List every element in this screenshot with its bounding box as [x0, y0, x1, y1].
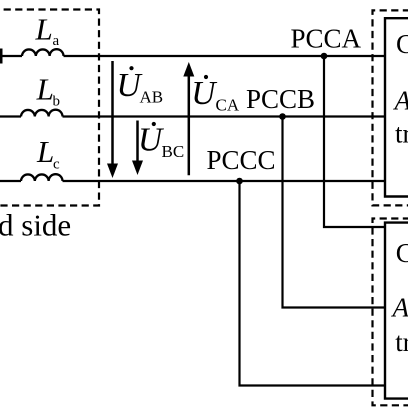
label UCA	[191, 75, 240, 115]
svg-text:c: c	[53, 156, 60, 172]
label grid side	[0, 208, 71, 243]
label PCCA	[291, 24, 362, 54]
label Lc	[36, 134, 60, 173]
converter 2 text line A	[391, 292, 408, 322]
svg-text:L: L	[36, 134, 54, 169]
node PCCB	[279, 113, 286, 120]
node PCCA	[321, 53, 328, 60]
svg-text:A: A	[391, 292, 408, 322]
converter 1 box	[385, 18, 408, 196]
svg-text:C: C	[396, 238, 408, 268]
wire phase A	[0, 55, 385, 57]
converter 1 text line C	[396, 29, 408, 59]
wire PCCA to converter 2	[324, 56, 385, 227]
label PCCC	[207, 145, 276, 175]
grid-side dashed enclosure	[0, 10, 99, 206]
svg-text:A: A	[393, 86, 408, 116]
wire phase C	[0, 180, 385, 182]
svg-text:PCCC: PCCC	[207, 145, 276, 175]
svg-text:a: a	[53, 33, 60, 49]
converter 1 text line tr	[395, 118, 408, 148]
converter 2 text line C	[396, 238, 408, 268]
converter 2 box	[385, 223, 408, 399]
svg-text:d side: d side	[0, 208, 71, 243]
converter 1 text line A	[393, 86, 408, 116]
wire PCCB to converter 2	[283, 117, 386, 308]
label PCCB	[246, 84, 315, 114]
wire PCCC to converter 2	[240, 181, 386, 386]
label UBC	[138, 122, 184, 161]
svg-text:b: b	[53, 94, 61, 110]
converter 2 text line tr	[395, 327, 408, 357]
inductor Lc	[21, 174, 63, 181]
converter 1 dashed enclosure	[373, 10, 408, 205]
svg-text:CA: CA	[216, 95, 240, 114]
svg-text:PCCA: PCCA	[291, 24, 362, 54]
svg-text:C: C	[396, 29, 408, 59]
node PCCC	[236, 178, 243, 185]
svg-text:PCCB: PCCB	[246, 84, 315, 114]
label UAB	[117, 66, 164, 106]
terminal tick phase A	[0, 49, 3, 64]
svg-text:L: L	[36, 72, 54, 107]
svg-text:tr: tr	[395, 118, 408, 148]
wire phase B	[0, 115, 385, 117]
inductor Lb	[21, 110, 63, 117]
converter 2 dashed enclosure	[373, 219, 408, 406]
arrow UCA	[183, 62, 194, 175]
svg-text:AB: AB	[140, 87, 164, 106]
label La	[35, 12, 60, 50]
label Lb	[36, 72, 60, 110]
svg-text:tr: tr	[395, 327, 408, 357]
arrow UBC	[132, 121, 143, 176]
svg-text:L: L	[35, 12, 53, 47]
inductor La	[22, 49, 64, 56]
arrow UAB	[107, 61, 118, 178]
svg-text:BC: BC	[162, 142, 185, 161]
svg-text:U: U	[191, 75, 218, 112]
